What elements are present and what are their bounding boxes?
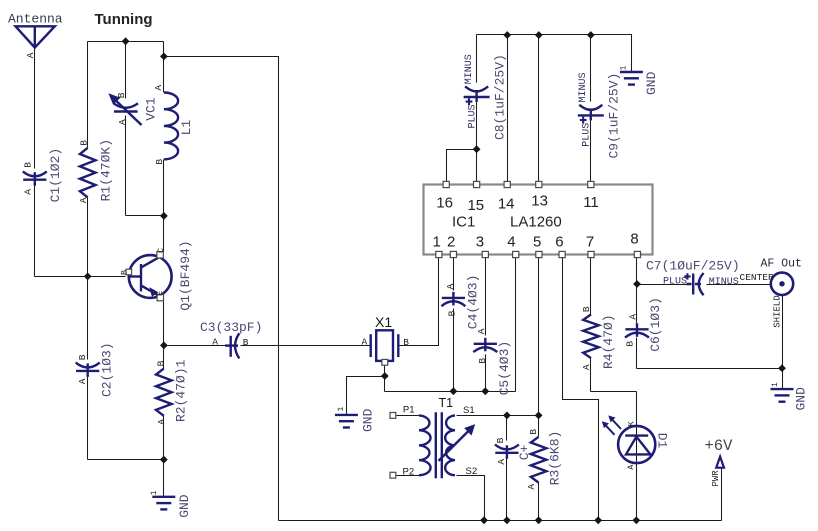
svg-text:C8(1uF/25V): C8(1uF/25V) [492, 54, 507, 140]
svg-text:IC1: IC1 [452, 214, 475, 231]
wire pin6 path [563, 258, 599, 521]
wire L1 branch [163, 42, 165, 216]
wire PWR riser [721, 468, 723, 521]
wire emitter [163, 301, 165, 346]
svg-text:PLUS: PLUS [467, 104, 478, 128]
resistor R1 [78, 139, 114, 203]
capacitor C4 [441, 275, 480, 330]
svg-text:11: 11 [583, 194, 599, 211]
svg-text:B: B [78, 140, 89, 146]
capacitor C7 [646, 259, 740, 296]
ground GND1 [150, 490, 192, 518]
svg-text:A: A [156, 419, 167, 425]
node pin8/C7 [633, 280, 641, 288]
svg-text:1: 1 [433, 234, 441, 251]
variable capacitor VC1 [110, 92, 159, 125]
svg-text:C6(1Ø3): C6(1Ø3) [648, 297, 663, 352]
label pin 5 [533, 234, 541, 251]
svg-text:C1(1Ø2): C1(1Ø2) [48, 148, 63, 203]
capacitor C3 [200, 320, 262, 358]
svg-text:A: A [496, 459, 507, 465]
svg-text:C: C [156, 248, 166, 253]
wire base feed [35, 276, 126, 278]
wire pin13 [538, 35, 540, 182]
wire C3 to X1 [241, 345, 371, 347]
svg-text:C7(1ØuF/25V): C7(1ØuF/25V) [646, 259, 740, 274]
connector AF Out [740, 258, 802, 328]
capacitor C2 [76, 342, 115, 397]
svg-text:A: A [445, 283, 456, 289]
resistor R2 [156, 359, 189, 424]
wire T1 P1 lead [397, 415, 420, 417]
svg-text:MINUS: MINUS [709, 277, 739, 288]
node C2/R2 [160, 456, 168, 464]
svg-text:R3(6K8): R3(6K8) [548, 431, 563, 486]
svg-text:R1(47ØK): R1(47ØK) [99, 139, 114, 201]
wire C2 branch [87, 277, 89, 460]
svg-text:A: A [628, 314, 639, 320]
capacitor C9 [578, 72, 622, 158]
resistor R3 [526, 429, 563, 490]
svg-text:MINUS: MINUS [578, 72, 589, 102]
node C4 [450, 387, 458, 395]
svg-text:2: 2 [447, 234, 455, 251]
svg-text:B: B [116, 92, 127, 98]
label pin 16 [436, 195, 453, 212]
transformer T1 [390, 396, 477, 478]
svg-text:Tunning: Tunning [95, 11, 153, 28]
node bus S2 [480, 516, 488, 524]
wire X1 bottom [384, 366, 386, 377]
svg-text:7: 7 [586, 234, 594, 251]
svg-text:P1: P1 [403, 404, 415, 415]
wire pin5 [538, 258, 540, 416]
capacitor C1 [23, 148, 64, 203]
svg-text:1: 1 [771, 382, 780, 387]
label pin 2 [447, 234, 455, 251]
IC pin pads bottom [436, 251, 641, 257]
resistor R4 [581, 306, 616, 370]
svg-text:T1: T1 [439, 396, 454, 410]
svg-text:B: B [624, 341, 635, 347]
wire bottom bus [279, 520, 722, 522]
svg-text:1: 1 [150, 490, 159, 495]
wire pin8 to C7 [637, 284, 690, 286]
svg-text:C5(4Ø3): C5(4Ø3) [497, 341, 512, 396]
svg-text:A: A [78, 197, 89, 203]
wire top-left horizontal [88, 41, 164, 43]
svg-text:D1: D1 [654, 433, 669, 449]
wire pin8 / C6 [636, 258, 638, 369]
wire C7 to jack [707, 284, 771, 286]
wire top rail [477, 35, 632, 72]
node shield [778, 364, 786, 372]
svg-text:B: B [119, 270, 129, 275]
crystal X1 [362, 314, 410, 365]
svg-text:X1: X1 [375, 314, 392, 330]
svg-text:S2: S2 [466, 466, 478, 477]
svg-text:A: A [526, 484, 537, 490]
wire antenna line [34, 48, 36, 277]
label IC1 [452, 214, 475, 231]
node pin15/16 [473, 145, 481, 153]
svg-text:C9(1uF/25V): C9(1uF/25V) [607, 73, 622, 159]
wire X1 down [384, 377, 386, 392]
label pin 6 [555, 234, 563, 251]
svg-text:1: 1 [620, 66, 629, 71]
capacitor C+ [495, 437, 532, 464]
svg-text:GND: GND [360, 408, 375, 432]
label pin 7 [586, 234, 594, 251]
wire R2 branch [163, 346, 165, 460]
svg-text:SHIELD: SHIELD [773, 295, 783, 327]
IC pin pads top [443, 181, 594, 187]
wire R1 branch [87, 42, 89, 277]
svg-text:R2(47Ø)1: R2(47Ø)1 [174, 359, 189, 422]
svg-text:CENTER: CENTER [740, 272, 775, 283]
node bus D1 [632, 516, 640, 524]
label pin 14 [498, 196, 515, 213]
capacitor C5 [473, 328, 512, 395]
node VC1/L1 bottom [160, 212, 168, 220]
svg-text:PLUS: PLUS [582, 123, 593, 147]
label LA1260 [510, 214, 562, 231]
node L1 top [160, 53, 168, 61]
svg-text:GND: GND [794, 387, 809, 411]
node pin14 top [503, 31, 511, 39]
svg-text:B: B [495, 437, 506, 443]
wire GND3 drop [782, 369, 784, 389]
wire pin16 link [447, 150, 477, 182]
svg-text:R4(47Ø): R4(47Ø) [601, 314, 616, 369]
wire emitter to C3 [164, 345, 227, 347]
svg-text:C+: C+ [517, 444, 532, 460]
svg-text:A: A [23, 189, 34, 195]
node C+ top [503, 412, 511, 420]
node VC1 top [122, 37, 130, 45]
wire X1 to GND2 [347, 377, 385, 415]
label Antenna [8, 12, 63, 27]
wire pin3 / C5 [485, 258, 487, 392]
svg-text:6: 6 [555, 234, 563, 251]
node pin13 top [535, 31, 543, 39]
label pin 1 [433, 234, 441, 251]
svg-text:GND: GND [644, 71, 659, 95]
wire pin15 / C8 [476, 35, 478, 182]
svg-text:5: 5 [533, 234, 541, 251]
label Tunning [95, 11, 153, 28]
capacitor C6 [624, 297, 663, 352]
svg-text:B: B [156, 360, 167, 366]
svg-text:Q1(BF494): Q1(BF494) [178, 240, 193, 310]
node bus R3 [535, 516, 543, 524]
ground GND3 [771, 382, 809, 411]
svg-text:B: B [243, 337, 249, 348]
svg-text:A: A [77, 378, 88, 384]
wire R4 to D1 [591, 391, 637, 393]
wire jack shield drop [782, 295, 784, 369]
svg-text:PLUS: PLUS [663, 277, 687, 288]
svg-text:A: A [153, 85, 164, 91]
wire pin11 / C9 [590, 35, 592, 182]
svg-text:AF Out: AF Out [761, 258, 802, 271]
svg-text:16: 16 [436, 195, 453, 212]
svg-text:B: B [154, 159, 165, 165]
wire S2 drop [457, 476, 485, 521]
label pin 13 [531, 193, 548, 210]
wire C6 to shield [637, 368, 783, 370]
node bus pin6 [594, 516, 602, 524]
svg-text:+6V: +6V [705, 437, 734, 455]
svg-text:B: B [403, 337, 409, 348]
node C9 top [587, 31, 595, 39]
svg-text:MINUS: MINUS [464, 54, 475, 84]
ground GND4 [620, 66, 660, 96]
svg-text:B: B [446, 310, 457, 316]
svg-text:B: B [477, 358, 488, 364]
node emitter [160, 342, 168, 350]
svg-text:B: B [581, 306, 592, 312]
wire GND1 drop [163, 460, 165, 497]
svg-text:A: A [476, 328, 487, 334]
antenna [16, 26, 55, 58]
wire tuned long feed [164, 57, 279, 521]
node bus C+ [503, 516, 511, 524]
svg-text:A: A [117, 119, 128, 125]
svg-text:4: 4 [507, 234, 515, 251]
label pin 8 [630, 231, 638, 248]
wire C2 to emitter line [88, 459, 164, 461]
capacitor C8 [464, 54, 508, 140]
wire pins2-4 horizontal [385, 391, 516, 393]
wire C+ branch [506, 416, 508, 521]
wire R3 branch [538, 416, 540, 521]
svg-text:Antenna: Antenna [8, 12, 63, 27]
transistor Q1 [119, 240, 193, 310]
wire T1 P2 lead [397, 475, 420, 477]
svg-text:B: B [77, 354, 88, 360]
wire VC1 branch [126, 42, 164, 216]
wire S1 to pin5 [457, 415, 539, 417]
svg-text:L1: L1 [179, 120, 194, 136]
wire pin14 [507, 35, 509, 182]
node R3 top [535, 412, 543, 420]
svg-text:E: E [155, 291, 165, 296]
label pin 15 [467, 197, 484, 214]
svg-text:PWR: PWR [711, 470, 721, 487]
wire pin2 / C4 [453, 258, 455, 392]
svg-text:14: 14 [498, 196, 515, 213]
svg-text:A: A [25, 52, 36, 58]
svg-text:LA1260: LA1260 [510, 214, 562, 231]
wire X1 to pin1 [399, 258, 439, 346]
label pin 3 [476, 234, 484, 251]
svg-text:A: A [212, 337, 218, 348]
svg-text:15: 15 [467, 197, 484, 214]
node C5 [481, 387, 489, 395]
node base [84, 273, 92, 281]
svg-text:A: A [362, 336, 368, 347]
wire collector [163, 216, 165, 253]
svg-text:1: 1 [337, 407, 346, 412]
label pin 11 [583, 194, 599, 211]
IC U1 LA1260 box [424, 185, 653, 255]
svg-text:C2(1Ø3): C2(1Ø3) [100, 342, 115, 397]
svg-text:P2: P2 [403, 467, 415, 478]
svg-text:VC1: VC1 [143, 97, 158, 121]
svg-text:B: B [23, 162, 34, 168]
svg-text:GND: GND [177, 494, 192, 518]
svg-text:3: 3 [476, 234, 484, 251]
LED D1 [602, 415, 670, 469]
svg-text:B: B [528, 429, 539, 435]
power +6V [705, 437, 734, 487]
svg-text:8: 8 [630, 231, 638, 248]
svg-text:C4(4Ø3): C4(4Ø3) [466, 275, 481, 330]
ground GND2 [335, 407, 376, 433]
wire pin4 [515, 258, 517, 392]
wire D1 branch [636, 392, 638, 521]
svg-text:A: A [626, 464, 636, 470]
label pin 4 [507, 234, 515, 251]
svg-text:A: A [581, 364, 592, 370]
inductor L1 [153, 85, 194, 165]
node X1 bottom [381, 372, 389, 380]
wire pin7 / R4 [590, 258, 592, 392]
svg-text:K: K [626, 420, 636, 426]
svg-text:S1: S1 [463, 405, 475, 416]
svg-text:13: 13 [531, 193, 548, 210]
svg-text:C3(33pF): C3(33pF) [200, 320, 262, 335]
